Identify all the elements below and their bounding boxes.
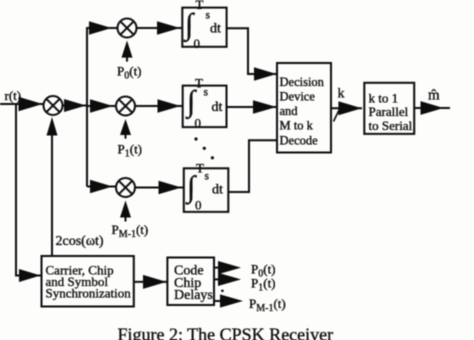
node m-hat output label [428, 88, 440, 104]
wire serial output [414, 107, 450, 109]
arrowhead into parallel-serial converter [338, 101, 361, 115]
svg-text:Delays: Delays [174, 288, 213, 303]
wire r(t) input horizontal [0, 103, 43, 105]
wire U2 output to decision device [227, 106, 278, 108]
code chip delays box U7 [167, 258, 214, 306]
integrator U3 integral sign [185, 171, 197, 206]
svg-text:s: s [204, 87, 209, 99]
arrowhead into synchronization box [19, 269, 41, 282]
synchronization text [46, 262, 132, 300]
arrowhead output PM-1 [220, 294, 243, 307]
wire splitter vertical bus [86, 27, 88, 186]
bus slash [334, 111, 339, 122]
label 2cos(wt) [56, 234, 104, 249]
wire 2cos carrier line up to M0 [51, 134, 53, 256]
parallel-serial converter box U5 [364, 83, 414, 134]
svg-text:PM-1(t): PM-1(t) [249, 296, 286, 314]
wire synchronization to code chip delays [134, 281, 167, 283]
svg-text:dt: dt [210, 22, 221, 37]
multiplier M0 (carrier mixer) [44, 96, 63, 115]
svg-text:Figure 2: The CPSK Receiver: Figure 2: The CPSK Receiver [118, 325, 334, 340]
integrator U2 dt label [212, 100, 223, 115]
integrator U2 integral sign [185, 85, 197, 120]
integrator U2 lower limit 0 [195, 116, 202, 131]
wire U1 output to decision device [227, 28, 277, 74]
wire M1 to integrator U1 [137, 27, 183, 29]
label P1(t) output [251, 276, 276, 294]
svg-text:s: s [205, 171, 210, 183]
arrowhead into code chip delays [143, 275, 167, 289]
svg-text:Device: Device [280, 89, 316, 103]
arrowhead into multiplier M2 [90, 99, 113, 112]
svg-text:PM-1(t): PM-1(t) [112, 222, 149, 240]
integrator U2 upper limit Ts [195, 75, 209, 98]
node k bus label [338, 87, 345, 102]
svg-text:2cos(ωt): 2cos(ωt) [56, 234, 104, 249]
svg-text:P0(t): P0(t) [117, 64, 142, 82]
svg-text:s: s [206, 10, 211, 22]
svg-text:T: T [196, 0, 204, 12]
svg-text:0: 0 [195, 198, 202, 213]
arrowhead at splitter junction [64, 99, 86, 112]
integrator U3 upper limit Ts [196, 161, 210, 183]
svg-text:Synchronization: Synchronization [46, 285, 132, 300]
synchronization box U6 [42, 256, 134, 307]
arrowhead into multiplier M1 [89, 21, 112, 34]
caption Figure 2: The CPSK Receiver [118, 325, 334, 340]
wire code delay output P0 [214, 267, 230, 269]
node r(t) input label [5, 88, 22, 103]
arrow stub P0 into M1 from below [126, 50, 128, 62]
arrowhead serial output [421, 101, 444, 115]
integrator U1 dt label [210, 22, 221, 37]
svg-text:P1(t): P1(t) [118, 142, 143, 160]
wire from input node down to synchronization [16, 104, 41, 276]
svg-text:k: k [338, 87, 345, 102]
svg-text:dt: dt [212, 183, 223, 198]
svg-text:T: T [196, 161, 204, 176]
svg-text:Decision: Decision [280, 75, 325, 89]
svg-text:to Serial: to Serial [369, 118, 413, 133]
arrowhead U1 output into decision device [254, 67, 277, 80]
wire U3 output to decision device [228, 140, 277, 192]
svg-text:m̂: m̂ [428, 88, 440, 104]
decision device box U4 [277, 63, 331, 153]
wire M3 to integrator U3 [135, 187, 184, 189]
integrator U2 box [183, 86, 227, 128]
arrowhead output P1 [218, 273, 241, 286]
wire M2 to integrator U2 [135, 105, 183, 107]
wire top branch to M1 [86, 27, 118, 29]
integrator U1 upper limit Ts [196, 0, 211, 22]
svg-text:0: 0 [194, 36, 201, 51]
wire code delay output P1 [214, 278, 230, 280]
integrator U3 lower limit 0 [195, 198, 202, 213]
arrowhead into multiplier M3 [90, 180, 113, 193]
integrator U3 box [184, 168, 229, 212]
svg-text:dt: dt [212, 100, 223, 115]
label P1(t) [118, 142, 143, 160]
arrowhead output P0 [218, 261, 241, 274]
wire bottom branch to M3 [87, 186, 116, 188]
svg-text:Decode: Decode [280, 134, 319, 148]
multiplier M3 [116, 178, 135, 197]
multiplier M1 [118, 19, 137, 38]
arrowhead into integrator U3 [159, 181, 182, 194]
code chip delays text [174, 264, 213, 304]
svg-text:T: T [195, 75, 203, 90]
integrator U1 integral sign [183, 8, 195, 43]
label P0(t) output [251, 262, 276, 280]
wire middle branch to M2 [87, 105, 116, 107]
ellipsis dots between branches [194, 137, 214, 159]
parallel-serial converter text [369, 91, 413, 133]
arrowhead into multiplier M0 [19, 97, 43, 111]
svg-text:P1(t): P1(t) [251, 276, 276, 294]
svg-text:0: 0 [195, 116, 202, 131]
integrator U1 lower limit 0 [194, 36, 201, 51]
arrowhead U2 output into decision device [253, 100, 277, 113]
arrow stub PM-1 into M3 from below [125, 210, 127, 222]
label P0(t) [117, 64, 142, 82]
wire M0 output to splitter junction [63, 105, 88, 107]
arrow stub P1 into M2 from below [125, 128, 127, 139]
wire code delay output PM-1 [214, 300, 232, 302]
wire decision device to parallel-serial converter [331, 107, 362, 109]
decision device text [280, 75, 325, 148]
ellipsis dot between outputs [221, 290, 224, 293]
integrator U3 dt label [212, 183, 223, 198]
arrowhead into integrator U2 [158, 99, 181, 112]
integrator U1 box [182, 8, 226, 47]
svg-text:and: and [280, 104, 299, 118]
label PM-1(t) [112, 222, 149, 240]
svg-text:M to k: M to k [280, 118, 314, 132]
arrowhead into integrator U1 [157, 21, 180, 34]
arrowhead carrier into M0 [47, 117, 58, 136]
multiplier M2 [116, 97, 135, 116]
label PM-1(t) output [249, 296, 286, 314]
